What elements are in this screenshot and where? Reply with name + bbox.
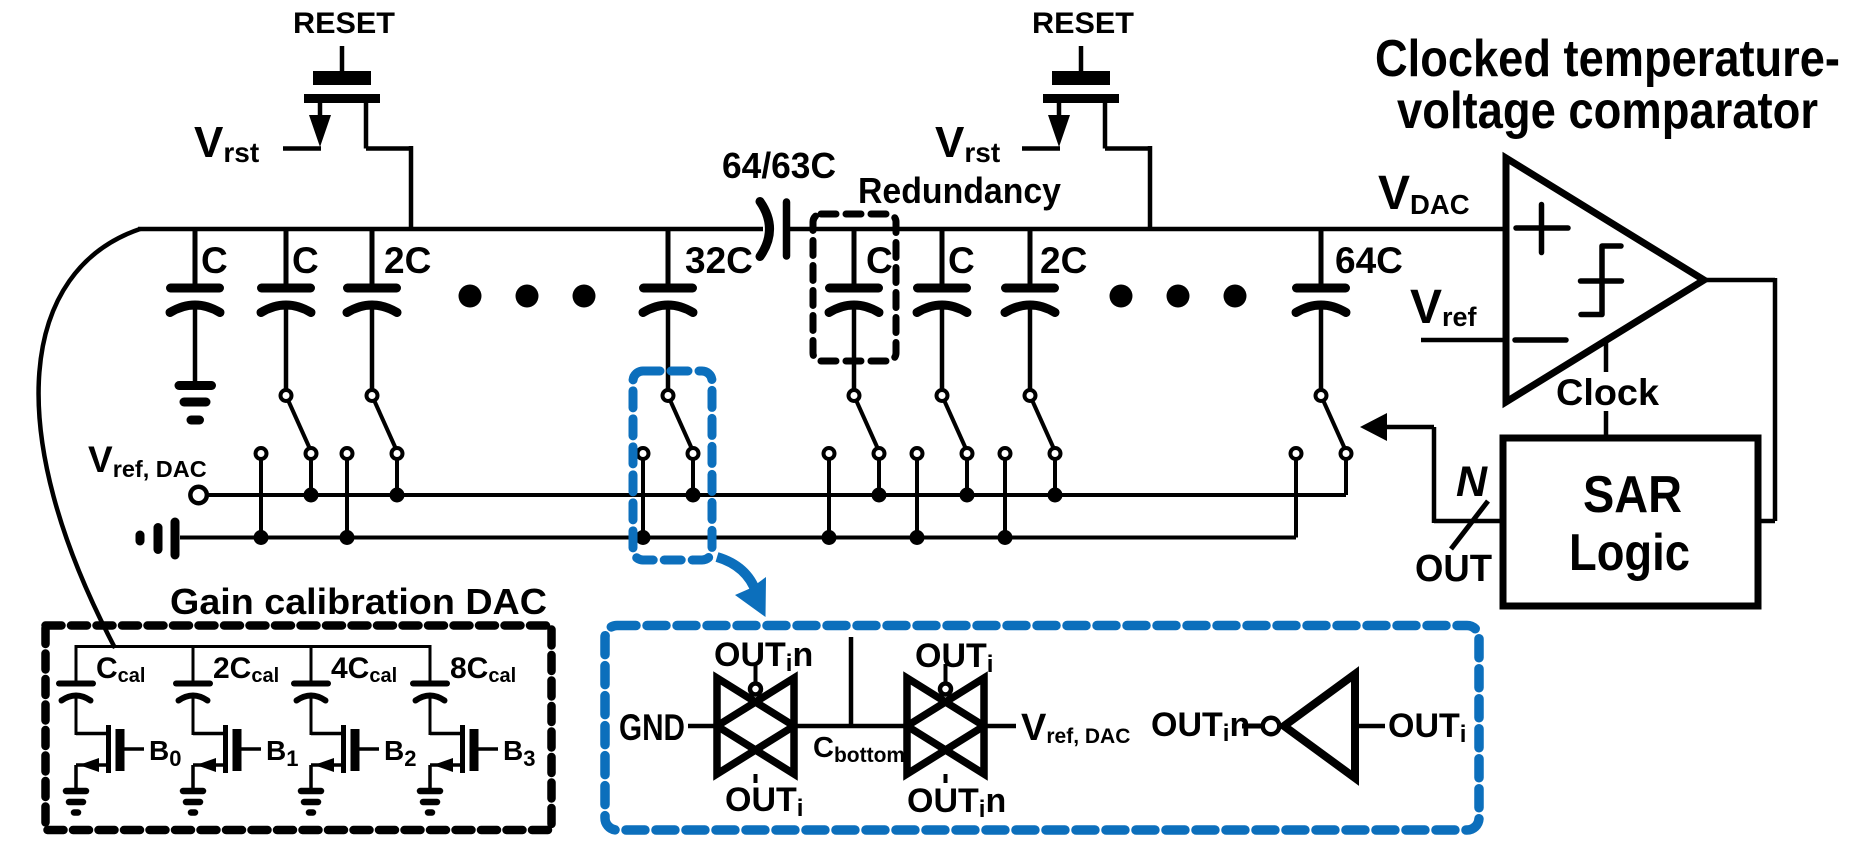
svg-text:SAR: SAR bbox=[1583, 466, 1682, 524]
svg-text:2C: 2C bbox=[384, 240, 431, 281]
svg-text:N: N bbox=[1456, 458, 1488, 506]
svg-text:32C: 32C bbox=[685, 240, 753, 281]
svg-text:OUTi: OUTi bbox=[1388, 707, 1466, 748]
svg-text:2C: 2C bbox=[1040, 240, 1087, 281]
svg-text:Redundancy: Redundancy bbox=[858, 170, 1061, 211]
svg-text:C: C bbox=[866, 240, 893, 281]
svg-text:Clock: Clock bbox=[1556, 372, 1659, 413]
svg-text:voltage comparator: voltage comparator bbox=[1397, 82, 1818, 140]
svg-text:OUTi: OUTi bbox=[915, 637, 993, 678]
svg-text:GND: GND bbox=[619, 707, 685, 748]
svg-text:Gain calibration DAC: Gain calibration DAC bbox=[170, 581, 547, 622]
svg-text:Logic: Logic bbox=[1569, 524, 1690, 582]
svg-text:RESET: RESET bbox=[1032, 7, 1134, 40]
svg-text:OUTin: OUTin bbox=[714, 636, 813, 677]
svg-text:OUTin: OUTin bbox=[907, 782, 1006, 823]
svg-text:C: C bbox=[948, 240, 975, 281]
svg-text:RESET: RESET bbox=[293, 7, 395, 40]
svg-text:64C: 64C bbox=[1335, 240, 1403, 281]
svg-text:Clocked temperature-: Clocked temperature- bbox=[1375, 30, 1840, 88]
svg-text:C: C bbox=[292, 240, 319, 281]
svg-text:OUTin: OUTin bbox=[1151, 706, 1250, 747]
svg-text:OUT: OUT bbox=[1415, 548, 1492, 590]
svg-text:C: C bbox=[201, 240, 228, 281]
svg-text:OUTi: OUTi bbox=[725, 781, 803, 822]
svg-text:64/63C: 64/63C bbox=[722, 145, 836, 186]
